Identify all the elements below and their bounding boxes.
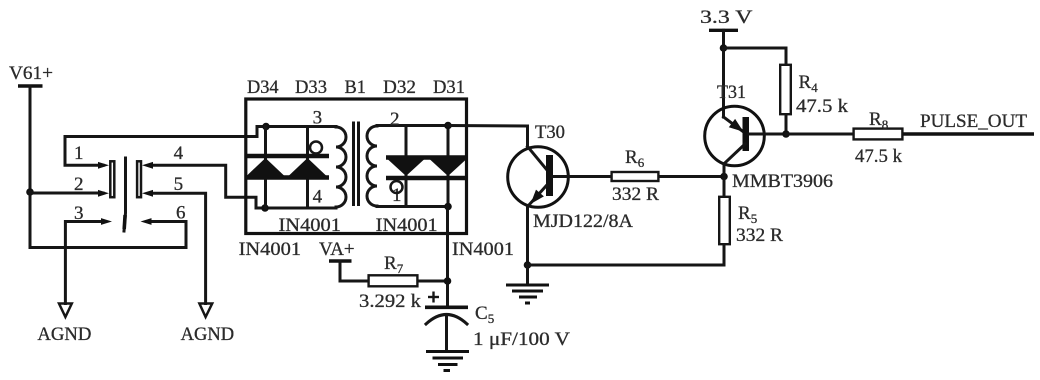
wire diode D34 column xyxy=(264,127,267,209)
svg-text:4: 4 xyxy=(174,143,184,164)
wire diode D32 column xyxy=(405,126,408,207)
transformer B1 phase dot left xyxy=(310,142,322,154)
wire 3.3V to T31 emitter xyxy=(722,48,725,117)
diode pair anode rail (left) xyxy=(246,175,329,180)
svg-text:IN4001: IN4001 xyxy=(279,215,342,236)
node junction bottom-right bridge xyxy=(444,203,452,211)
wire right winding bottom xyxy=(377,205,448,208)
transformer B1 right winding xyxy=(367,126,377,206)
capacitor C5 bottom plate (curved) xyxy=(426,315,467,325)
svg-text:IN4001: IN4001 xyxy=(376,215,438,236)
wire R4 bottom to base node xyxy=(785,115,788,134)
wire junction down to bottom loop xyxy=(29,192,32,248)
transistor T30 circle xyxy=(508,147,569,208)
svg-text:PULSE_OUT: PULSE_OUT xyxy=(920,111,1027,132)
node junction R7/C5 xyxy=(444,277,452,285)
transformer B1 left winding xyxy=(336,127,346,207)
transistor T30 base bar xyxy=(546,155,553,196)
wire pin 1 branch up and across to bridge box xyxy=(65,127,266,166)
transistor T30 emitter arrowhead xyxy=(531,190,544,204)
capacitor C5 plus sign xyxy=(428,296,439,298)
resistor R8 body xyxy=(854,129,903,140)
svg-text:3: 3 xyxy=(313,108,323,129)
wire node to R8 xyxy=(786,133,853,136)
svg-text:6: 6 xyxy=(176,203,186,224)
svg-text:1: 1 xyxy=(74,143,84,164)
ground under T30 xyxy=(506,284,549,287)
wire junction to R5 top xyxy=(723,177,726,197)
resistor R5 body xyxy=(719,197,730,244)
diode pair anode rail (right) xyxy=(386,176,467,181)
svg-text:AGND: AGND xyxy=(181,324,235,345)
node junction V61+/pin2 xyxy=(26,188,34,196)
pin 5 arrowhead xyxy=(142,190,153,197)
wire V61+ stem down to pin2 junction xyxy=(29,86,32,192)
svg-text:AGND: AGND xyxy=(37,324,91,345)
transistor T31 base bar xyxy=(743,117,750,151)
node junction bottom-left bridge xyxy=(261,204,269,212)
node junction top-left bridge xyxy=(262,123,270,131)
wire R8 to PULSE_OUT xyxy=(903,132,1034,135)
power V61+ bar xyxy=(18,84,43,87)
svg-text:47.5 k: 47.5 k xyxy=(855,146,902,167)
svg-text:D34: D34 xyxy=(247,77,279,98)
pin 3 arrowhead xyxy=(101,218,112,225)
pin 2 arrowhead xyxy=(98,190,109,197)
svg-text:IN4001: IN4001 xyxy=(239,239,302,260)
connector J1 center blade thick tip xyxy=(122,215,127,229)
transistor T31 collector diagonal xyxy=(724,144,745,164)
svg-text:332 R: 332 R xyxy=(736,225,783,246)
wire 3.3V stem xyxy=(722,30,725,48)
svg-text:T31: T31 xyxy=(717,82,746,103)
svg-text:47.5 k: 47.5 k xyxy=(796,96,849,117)
wire left winding top xyxy=(266,125,336,128)
wire R7 to junction xyxy=(418,280,448,283)
svg-text:332 R: 332 R xyxy=(612,184,659,205)
svg-text:4: 4 xyxy=(313,187,323,208)
power VA+ bar xyxy=(329,259,352,262)
wire pin 4 to bridge box lower pin xyxy=(153,165,265,208)
svg-text:5: 5 xyxy=(174,174,184,195)
transformer B1 phase dot right xyxy=(391,181,403,193)
svg-text:3: 3 xyxy=(74,203,84,224)
pin 6 arrowhead xyxy=(141,218,152,225)
node junction 3.3V xyxy=(720,44,728,52)
wire pin 3 to AGND xyxy=(65,222,104,304)
wire T30 emitter down xyxy=(526,206,529,266)
diode D34 triangle xyxy=(247,158,284,176)
diode pair cathode rail (right) xyxy=(386,155,467,160)
svg-text:MJD122/8A: MJD122/8A xyxy=(533,211,633,232)
connector J1 center blade xyxy=(124,158,126,231)
wire emitter to ground xyxy=(526,265,529,285)
svg-text:B1: B1 xyxy=(345,77,367,98)
svg-text:D32: D32 xyxy=(383,77,416,98)
connector J1 left contact xyxy=(110,161,114,197)
diode pair cathode rail (left) xyxy=(246,154,329,159)
resistor R7 body xyxy=(369,275,418,286)
diode D33 triangle xyxy=(289,158,326,176)
wire pin 2 xyxy=(30,192,103,195)
wire bottom loop to pin 6 xyxy=(30,222,186,248)
wire emitter to R5 bottom xyxy=(528,245,725,265)
transistor T30 emitter diagonal xyxy=(529,186,547,206)
transistor T30 collector diagonal xyxy=(528,147,548,171)
svg-text:T30: T30 xyxy=(535,122,565,143)
svg-text:1: 1 xyxy=(392,185,402,206)
diode D31 triangle xyxy=(430,160,466,177)
node junction base/R4/R8 xyxy=(782,130,790,138)
transformer B1 core lines xyxy=(352,123,355,205)
resistor R4 body xyxy=(780,65,791,114)
wire T30 base to R6 xyxy=(553,175,611,178)
pin 1 arrowhead xyxy=(98,162,109,169)
wire 3.3V branch to R4 xyxy=(724,48,787,64)
wire right winding top xyxy=(377,124,448,127)
wire bridge output down to C5 xyxy=(446,207,449,306)
svg-text:2: 2 xyxy=(390,109,400,130)
ground AGND right arrow xyxy=(199,304,212,318)
svg-text:VA+: VA+ xyxy=(319,239,355,260)
connector J1 right contact xyxy=(137,161,141,197)
wire diode D33 column xyxy=(306,127,309,209)
ground under C5 xyxy=(426,350,469,353)
node junction T31 collector / R5 xyxy=(720,173,728,181)
svg-text:D33: D33 xyxy=(295,77,327,98)
svg-text:IN4001: IN4001 xyxy=(452,239,514,260)
svg-text:2: 2 xyxy=(74,174,84,195)
wire R6 to T31 collector junction xyxy=(659,175,724,178)
capacitor C5 top plate xyxy=(425,305,468,309)
svg-text:3.292 k: 3.292 k xyxy=(359,291,422,312)
diode D32 triangle xyxy=(388,160,424,177)
wire pin 5 to AGND xyxy=(153,193,206,303)
node junction top-right bridge xyxy=(444,122,452,130)
svg-text:MMBT3906: MMBT3906 xyxy=(732,171,833,192)
svg-text:3.3 V: 3.3 V xyxy=(700,7,753,28)
transistor T31 emitter arrowhead (PNP) xyxy=(729,119,744,132)
wire bridge to T30 collector xyxy=(448,126,528,147)
wire C5 to ground xyxy=(445,317,448,352)
pin 4 arrowhead xyxy=(142,162,153,169)
wire left winding bottom xyxy=(265,207,336,210)
node junction T30 emitter xyxy=(524,261,532,269)
resistor R6 body xyxy=(612,172,659,181)
wire T31 collector down xyxy=(723,164,726,177)
svg-text:1 μF/100 V: 1 μF/100 V xyxy=(473,329,570,350)
power 3.3 V bar xyxy=(709,29,738,32)
wire diode D31 column xyxy=(447,126,450,207)
ground AGND left arrow xyxy=(59,304,72,318)
bridge box B1 outline xyxy=(246,99,467,234)
transistor T31 emitter diagonal xyxy=(724,117,744,132)
wire T31 base to output node xyxy=(749,133,786,136)
svg-text:D31: D31 xyxy=(433,77,465,98)
svg-text:V61+: V61+ xyxy=(9,63,53,84)
wire VA+ stem to R7 xyxy=(340,261,368,281)
transistor T31 circle xyxy=(705,106,765,166)
